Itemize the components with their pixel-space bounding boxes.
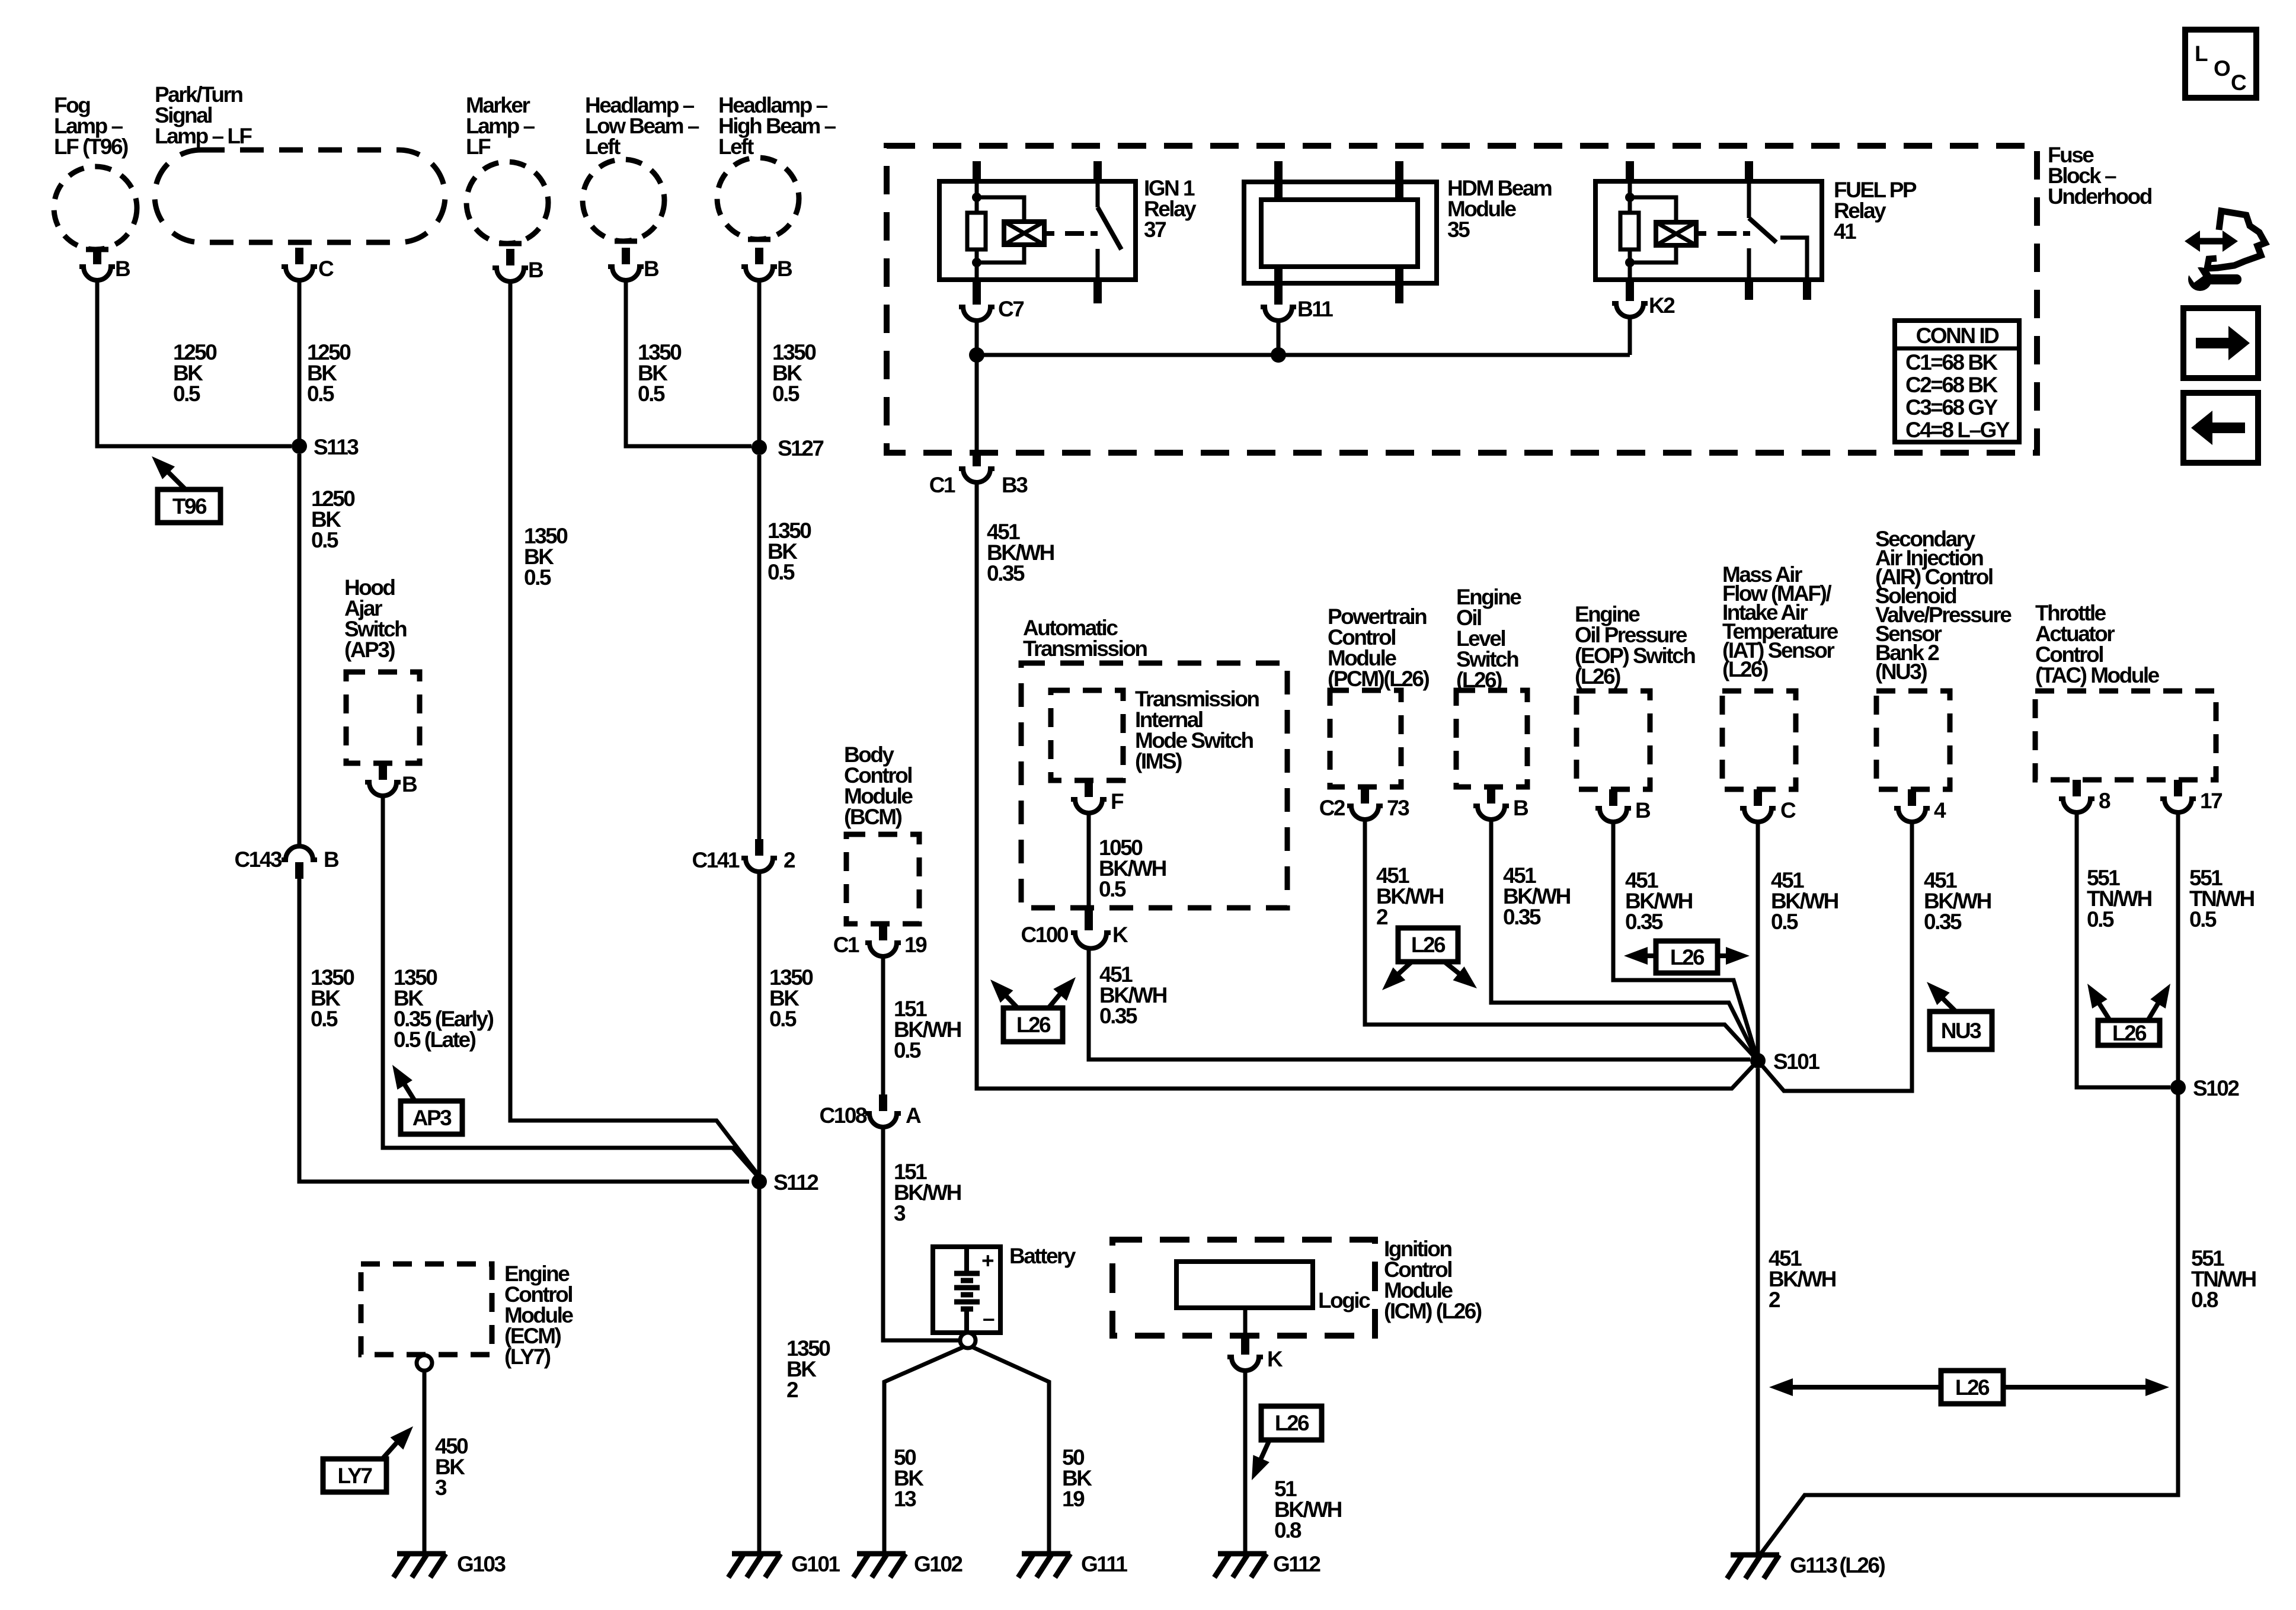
svg-text:0.5: 0.5	[311, 1007, 338, 1031]
connector B11	[1261, 288, 1333, 321]
svg-text:C: C	[318, 257, 334, 281]
transmission internal mode switch box	[1051, 690, 1123, 780]
svg-text:0.5: 0.5	[2087, 907, 2114, 932]
svg-text:G101: G101	[791, 1552, 840, 1576]
ignition control module box	[1112, 1240, 1375, 1336]
svg-text:0.5: 0.5	[173, 382, 200, 406]
svg-text:2: 2	[1376, 905, 1388, 929]
wire label 451 BK/WH 2 (S101)	[1769, 1246, 1836, 1312]
svg-text:B: B	[777, 257, 792, 281]
park/turn lamp label	[155, 82, 252, 148]
fuse block bus wire	[977, 353, 1630, 357]
wire label 151 BK/WH 0.5	[894, 997, 961, 1062]
svg-text:LY7: LY7	[338, 1464, 372, 1488]
engine control module label	[504, 1262, 573, 1369]
svg-text:0.35: 0.35	[1099, 1004, 1137, 1028]
FUEL PP relay 41	[1595, 161, 1822, 300]
wire label 50 BK 19	[1062, 1445, 1092, 1511]
wire EOL to S101	[1491, 821, 1758, 1061]
fog lamp LF (T96) component circle	[54, 167, 137, 249]
svg-text:0.5: 0.5	[311, 528, 338, 552]
engine oil pressure switch box	[1576, 691, 1650, 789]
hood ajar switch label	[344, 575, 407, 662]
svg-text:13: 13	[894, 1487, 916, 1511]
ECM output node	[417, 1355, 432, 1371]
svg-text:0.5: 0.5	[1771, 910, 1798, 934]
svg-text:G103: G103	[457, 1552, 506, 1576]
wire ICM K to G112	[1243, 1372, 1248, 1554]
park/turn connector pin C	[282, 242, 334, 281]
secondary air injection solenoid box	[1876, 691, 1950, 789]
ground G112	[1214, 1552, 1320, 1577]
wire C7 down to fuse block exit	[975, 322, 979, 453]
svg-text:L26: L26	[1275, 1411, 1309, 1435]
svg-text:–: –	[983, 1306, 994, 1330]
wire label 1350 BK 0.5 (below S127)	[768, 518, 811, 584]
NU3 tag with arrow	[1927, 982, 1992, 1049]
svg-text:+: +	[981, 1249, 994, 1273]
svg-text:G113 (L26): G113 (L26)	[1790, 1553, 1885, 1577]
svg-text:L: L	[2195, 41, 2208, 66]
svg-text:B: B	[644, 257, 659, 281]
svg-text:CONN ID: CONN ID	[1916, 324, 2000, 348]
automatic transmission box	[1021, 663, 1287, 908]
LY7 tag with arrow	[323, 1426, 413, 1492]
svg-text:C143: C143	[235, 847, 282, 872]
forward arrow box	[2183, 308, 2258, 378]
svg-text:AP3: AP3	[412, 1106, 452, 1130]
engine oil pressure switch label	[1575, 602, 1695, 689]
svg-text:C108: C108	[820, 1103, 867, 1128]
L26 tag with double arrow (EOP)	[1624, 941, 1750, 973]
diagnostic wrench icon	[2183, 211, 2265, 291]
svg-text:0.5 (Late): 0.5 (Late)	[394, 1028, 476, 1052]
svg-text:3: 3	[894, 1201, 906, 1225]
svg-text:8: 8	[2099, 789, 2110, 813]
svg-text:LF (T96): LF (T96)	[54, 135, 128, 159]
L26 tag with arrows (C100)	[990, 977, 1076, 1042]
svg-text:S113: S113	[314, 435, 359, 459]
marker lamp connector pin B	[493, 244, 543, 282]
mass air flow IAT sensor box	[1722, 691, 1796, 789]
svg-text:L26: L26	[1411, 933, 1446, 957]
svg-text:0.5: 0.5	[307, 382, 334, 406]
park/turn signal lamp LF component outline	[155, 150, 445, 242]
svg-text:(PCM)(L26): (PCM)(L26)	[1328, 667, 1429, 691]
svg-text:L26: L26	[1955, 1375, 1990, 1400]
marker lamp label	[466, 93, 535, 159]
svg-text:Transmission: Transmission	[1023, 636, 1147, 661]
svg-text:0.5: 0.5	[1099, 877, 1126, 901]
svg-text:0.35: 0.35	[1503, 905, 1541, 929]
wire label 1350 BK 0.5 (marker)	[524, 524, 568, 590]
svg-text:0.5: 0.5	[772, 382, 800, 406]
fog lamp label	[54, 93, 128, 159]
svg-text:3: 3	[435, 1475, 447, 1500]
svg-text:41: 41	[1834, 219, 1856, 244]
ICM logic block	[1176, 1262, 1370, 1313]
wire label 1350 BK 0.5 (below C141)	[769, 965, 813, 1031]
L26 tag with arrows (TAC)	[2087, 984, 2170, 1045]
svg-text:0.5: 0.5	[524, 565, 551, 590]
svg-text:C4=8 L–GY: C4=8 L–GY	[1905, 418, 2010, 442]
svg-text:B: B	[115, 257, 130, 281]
connector C7	[959, 288, 1024, 321]
headlamp high beam label	[718, 93, 836, 159]
T96 tag with arrow	[152, 456, 220, 523]
svg-text:C1=68 BK: C1=68 BK	[1905, 350, 1998, 375]
wire hood ajar switch to S112	[383, 797, 759, 1178]
wire fuse block down to S101	[977, 484, 1758, 1089]
svg-text:K2: K2	[1649, 293, 1675, 318]
svg-text:C: C	[1780, 798, 1796, 822]
wire TAC pin 8 to S102	[2077, 814, 2170, 1087]
wire label 1350 BK 2	[786, 1336, 830, 1402]
HDM beam module label	[1447, 176, 1552, 242]
wire label 451 BK/WH 0.5 (MAF)	[1771, 868, 1838, 934]
svg-text:F: F	[1111, 789, 1124, 814]
PCM connector C2 pin 73	[1319, 787, 1409, 820]
IMS connector pin F	[1071, 780, 1124, 814]
svg-text:B: B	[402, 772, 417, 796]
fog lamp connector pin B	[79, 248, 130, 281]
wire low beam to S127	[626, 281, 752, 446]
ground G113	[1727, 1553, 1885, 1579]
svg-text:C: C	[2231, 71, 2246, 95]
wire label 51 BK/WH 0.8	[1274, 1477, 1342, 1542]
wire battery node to G102	[884, 1347, 964, 1554]
wire label 1050 BK/WH 0.5	[1099, 836, 1166, 901]
BCM connector C1 pin 19	[833, 924, 927, 957]
IGN 1 relay label	[1144, 176, 1197, 242]
svg-text:(IMS): (IMS)	[1135, 749, 1182, 773]
svg-text:C100: C100	[1021, 923, 1069, 947]
wire label 451 BK/WH 2	[1376, 863, 1444, 929]
svg-text:17: 17	[2200, 789, 2222, 813]
mass air flow IAT sensor label	[1722, 562, 1838, 681]
engine oil level switch box	[1456, 690, 1527, 787]
wire TAC pin 17 to G113	[1761, 814, 2178, 1554]
HDM beam module 35	[1244, 161, 1437, 303]
wire high beam down to S127	[757, 281, 762, 446]
svg-text:C141: C141	[692, 848, 740, 872]
headlamp low beam label	[585, 93, 699, 159]
svg-text:S102: S102	[2193, 1076, 2239, 1100]
svg-text:S101: S101	[1773, 1049, 1819, 1074]
connector C143 pin B	[235, 846, 339, 879]
svg-text:B: B	[1635, 798, 1651, 822]
ignition control module label	[1384, 1237, 1482, 1323]
svg-text:2: 2	[1769, 1288, 1780, 1312]
wire MAF to S101	[1756, 823, 1760, 1054]
svg-text:19: 19	[1062, 1487, 1085, 1511]
svg-text:S127: S127	[778, 436, 823, 460]
powertrain control module box	[1330, 690, 1401, 787]
wire label 551 TN/WH 0.5 (pin 17)	[2189, 866, 2255, 932]
junction dot on C7 wire	[969, 347, 984, 363]
svg-text:(L26): (L26)	[1575, 664, 1620, 689]
svg-text:0.35: 0.35	[987, 561, 1025, 585]
svg-text:G111: G111	[1081, 1552, 1127, 1576]
svg-text:T96: T96	[172, 494, 207, 518]
svg-text:K: K	[1112, 923, 1128, 947]
battery ground node	[960, 1333, 976, 1348]
svg-text:(AP3): (AP3)	[344, 638, 395, 662]
L26 tag with arrow (ICM)	[1252, 1406, 1322, 1480]
fuse block underhood outline	[887, 146, 2037, 453]
wire label 1250 BK 0.5 (below S113)	[311, 486, 355, 552]
wire ECM to G103	[423, 1371, 427, 1554]
wire label 1350 BK 0.35/0.5	[394, 965, 494, 1052]
hood ajar switch box	[346, 672, 420, 763]
wire PCM to S101	[1365, 821, 1758, 1061]
wire label 450 BK 3	[435, 1434, 468, 1500]
automatic transmission label	[1023, 616, 1147, 661]
wire K2 down to bus	[1628, 318, 1632, 355]
AP3 tag with arrow	[392, 1065, 462, 1134]
transmission IMS label	[1135, 687, 1259, 773]
svg-text:G112: G112	[1273, 1552, 1320, 1576]
wire label 451 BK/WH 0.35 (C100)	[1099, 962, 1167, 1028]
engine oil level switch label	[1456, 585, 1521, 692]
svg-text:A: A	[906, 1103, 921, 1128]
ground G111	[1018, 1552, 1127, 1577]
svg-text:0.5: 0.5	[769, 1007, 797, 1031]
svg-text:0.5: 0.5	[894, 1038, 921, 1062]
battery	[933, 1247, 1000, 1333]
wire EOP to S101	[1613, 823, 1758, 1061]
splice S102	[2170, 1076, 2239, 1100]
AIR connector pin 4	[1894, 789, 1946, 822]
svg-text:Underhood: Underhood	[2048, 184, 2152, 209]
headlamp low beam connector pin B	[608, 241, 659, 281]
wire S113 down to C143	[298, 454, 302, 846]
svg-text:C2=68 BK: C2=68 BK	[1905, 373, 1998, 397]
wire label 1350 BK 0.5 (high beam)	[772, 340, 816, 406]
svg-text:19: 19	[904, 933, 927, 957]
svg-text:O: O	[2214, 56, 2230, 81]
EOP connector pin B	[1595, 789, 1651, 822]
svg-text:(ICM) (L26): (ICM) (L26)	[1384, 1299, 1482, 1323]
throttle actuator control module label	[2035, 601, 2160, 687]
junction dot at B11 wire	[1271, 347, 1286, 363]
svg-text:C1: C1	[833, 933, 859, 957]
wire label 1250 BK 0.5 (fog)	[173, 340, 217, 406]
wire label 50 BK 13	[894, 1445, 924, 1511]
svg-text:0.5: 0.5	[768, 560, 795, 584]
wire B11 down to bus	[1277, 322, 1281, 355]
svg-text:4: 4	[1934, 798, 1946, 822]
wire label 551 TN/WH 0.5 (pin 8)	[2087, 866, 2152, 932]
svg-text:B3: B3	[1002, 473, 1028, 497]
throttle actuator control module box	[2035, 691, 2216, 780]
svg-text:0.35: 0.35	[1625, 910, 1663, 934]
splice S113	[292, 435, 359, 459]
wire marker lamp down	[510, 283, 759, 1176]
svg-text:G102: G102	[914, 1552, 962, 1576]
LOC reference box	[2185, 30, 2256, 98]
fuse block label	[2048, 143, 2152, 209]
engine control module box	[361, 1264, 492, 1355]
svg-text:0.35: 0.35	[1924, 910, 1962, 934]
splice S112	[752, 1170, 818, 1195]
EOL connector pin B	[1473, 787, 1528, 820]
wire label 451 BK/WH 0.35 (EOP)	[1625, 868, 1693, 934]
connector K2	[1612, 284, 1675, 318]
connector C141 pin 2	[692, 839, 795, 872]
wire label 451 BK/WH 0.35 (AIR)	[1924, 868, 1991, 934]
svg-text:(LY7): (LY7)	[504, 1345, 551, 1369]
wire C141 down through S112 to G101	[757, 873, 762, 1554]
ICM connector pin K	[1227, 1338, 1283, 1371]
svg-text:2: 2	[786, 1378, 798, 1402]
svg-text:L26: L26	[1670, 945, 1705, 969]
headlamp high beam connector pin B	[741, 239, 792, 281]
svg-text:73: 73	[1387, 796, 1409, 820]
splice S101	[1750, 1049, 1819, 1074]
ground G102	[853, 1552, 962, 1577]
wire fog lamp to S113	[97, 281, 292, 446]
svg-text:C3=68 GY: C3=68 GY	[1905, 395, 1998, 420]
svg-text:Battery: Battery	[1009, 1244, 1076, 1268]
wire C143 down to S112	[299, 872, 749, 1182]
svg-text:B11: B11	[1297, 297, 1333, 321]
svg-text:35: 35	[1447, 217, 1470, 242]
wire F down to C100	[1087, 814, 1091, 908]
hood ajar connector pin B	[365, 763, 417, 796]
svg-text:C7: C7	[998, 297, 1024, 321]
svg-text:Logic: Logic	[1318, 1288, 1370, 1313]
connector C100 pin K	[1021, 908, 1128, 949]
wire label 1350 BK 0.5 (low beam)	[638, 340, 682, 406]
battery label	[1009, 1244, 1076, 1268]
wire label 451 BK/WH 0.35 (EOL)	[1503, 863, 1571, 929]
wire C108 to battery node	[883, 1128, 960, 1340]
TAC connector pin 8	[2059, 780, 2110, 813]
svg-text:L26: L26	[1016, 1013, 1051, 1037]
CONN ID table	[1895, 321, 2019, 442]
wire AIR solenoid to S101	[1758, 823, 1912, 1091]
FUEL PP relay label	[1834, 178, 1917, 244]
svg-text:37: 37	[1144, 217, 1166, 242]
svg-text:0.5: 0.5	[2189, 907, 2217, 932]
wire C100 to S101	[1089, 948, 1750, 1060]
svg-text:B: B	[528, 258, 543, 282]
headlamp low beam left component circle	[583, 159, 664, 241]
ground G103	[394, 1552, 506, 1577]
wire label 451 BK/WH 0.35 (fuse output)	[987, 520, 1054, 585]
svg-text:(TAC) Module: (TAC) Module	[2035, 663, 2160, 687]
svg-text:(BCM): (BCM)	[844, 805, 902, 829]
wire logic to K	[1243, 1308, 1248, 1338]
svg-text:2: 2	[784, 848, 795, 872]
L26 tag with long double arrow (G113)	[1769, 1371, 2169, 1404]
svg-text:0.5: 0.5	[638, 382, 665, 406]
secondary air injection solenoid label	[1875, 527, 2012, 684]
svg-text:S112: S112	[773, 1170, 818, 1195]
wire S127 down to C141	[757, 455, 762, 844]
powertrain control module label	[1328, 604, 1429, 691]
ground G101	[728, 1552, 840, 1577]
TAC connector pin 17	[2160, 780, 2222, 813]
svg-text:Left: Left	[585, 135, 621, 159]
wire label 1350 BK 0.5 (below C143)	[311, 965, 354, 1031]
svg-text:(L26): (L26)	[1722, 657, 1768, 681]
svg-text:C2: C2	[1319, 796, 1345, 820]
wire label 1250 BK 0.5 (park/turn)	[307, 340, 351, 406]
marker lamp LF component circle	[466, 162, 548, 244]
splice S127	[752, 436, 823, 460]
svg-text:B: B	[324, 847, 339, 872]
svg-text:Left: Left	[718, 135, 754, 159]
connector C1/B3 fuse block output	[929, 450, 1028, 497]
svg-text:B: B	[1513, 796, 1528, 820]
svg-text:0.8: 0.8	[2191, 1288, 2218, 1312]
wire label 151 BK/WH 3	[894, 1160, 961, 1225]
svg-text:(NU3): (NU3)	[1875, 660, 1927, 684]
headlamp high beam left component circle	[717, 158, 799, 239]
svg-text:LF: LF	[466, 135, 491, 159]
backward arrow box	[2183, 393, 2258, 463]
body control module label	[844, 742, 913, 829]
wire BCM C1 to C108	[881, 958, 885, 1095]
svg-text:K: K	[1267, 1347, 1283, 1371]
wire S101 to G113	[1756, 1068, 1760, 1554]
wire park/turn down to S113	[298, 281, 302, 446]
svg-text:C1: C1	[929, 473, 955, 497]
svg-text:0.8: 0.8	[1274, 1518, 1302, 1542]
svg-text:Lamp – LF: Lamp – LF	[155, 124, 252, 148]
IGN 1 relay 37	[939, 161, 1136, 303]
svg-text:L26: L26	[2112, 1021, 2147, 1045]
svg-text:NU3: NU3	[1941, 1019, 1981, 1043]
body control module box	[846, 834, 919, 924]
L26 tag with arrows (PCM)	[1382, 928, 1477, 990]
connector C108 pin A	[820, 1094, 921, 1128]
wire battery node to G111	[972, 1347, 1049, 1554]
wire label 551 TN/WH 0.8	[2191, 1246, 2256, 1312]
MAF connector pin C	[1740, 789, 1796, 822]
